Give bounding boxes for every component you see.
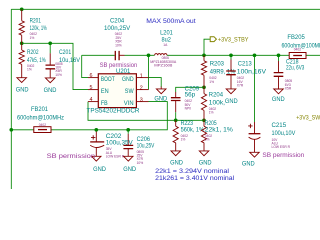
wire C206 drop xyxy=(127,130,129,134)
svg-text:10%: 10% xyxy=(55,73,62,77)
junction node C218 top xyxy=(277,53,281,57)
ground under C215 xyxy=(242,152,259,167)
svg-text:1: 1 xyxy=(140,74,143,80)
wire C209 lower to FB net xyxy=(175,101,177,113)
pin 5 EN xyxy=(88,85,109,95)
svg-text:21k261 = 3.401V nominal: 21k261 = 3.401V nominal xyxy=(155,175,234,182)
svg-text:1%: 1% xyxy=(30,36,35,40)
wire FB net xyxy=(88,102,204,121)
ground under C206 xyxy=(123,156,136,173)
junction node SW xyxy=(147,53,151,57)
wire top VIN rail xyxy=(11,8,320,10)
svg-text:+3V3_STBY: +3V3_STBY xyxy=(218,37,249,44)
ground under R223 xyxy=(170,151,183,166)
svg-text:100n,16V: 100n,16V xyxy=(237,69,267,76)
svg-text:U201: U201 xyxy=(116,68,131,75)
svg-text:LOW ESR R: LOW ESR R xyxy=(272,145,291,149)
svg-text:56p: 56p xyxy=(185,92,196,99)
resistor R205 xyxy=(201,120,233,151)
svg-text:C204: C204 xyxy=(110,18,124,25)
wire C209 branch xyxy=(176,87,204,92)
svg-text:MPZ1608: MPZ1608 xyxy=(154,63,172,67)
wire C213 drop xyxy=(230,55,232,59)
svg-text:10u,25V: 10u,25V xyxy=(137,143,155,150)
wire left vertical VIN feed xyxy=(10,9,12,189)
junction node top R201 xyxy=(20,7,24,11)
junction node FB R223 xyxy=(174,118,178,122)
svg-text:100u,10V: 100u,10V xyxy=(272,130,296,137)
svg-text:SW: SW xyxy=(125,88,134,95)
svg-text:GND: GND xyxy=(122,76,134,83)
svg-text:VIN: VIN xyxy=(124,100,134,107)
svg-text:1%: 1% xyxy=(27,68,32,72)
resistor R201 xyxy=(19,9,47,43)
svg-text:600ohm@100MHz: 600ohm@100MHz xyxy=(282,42,320,49)
svg-text:560k, 1%: 560k, 1% xyxy=(181,126,205,133)
svg-text:1%: 1% xyxy=(205,138,210,142)
svg-text:10%: 10% xyxy=(115,43,122,47)
resistor R202 xyxy=(19,43,46,77)
svg-text:FB201: FB201 xyxy=(31,106,48,113)
svg-text:GND: GND xyxy=(93,166,106,173)
svg-text:3: 3 xyxy=(140,97,143,103)
ground under R205 xyxy=(199,151,212,166)
wire output rail after L201 xyxy=(167,54,320,56)
wire C201 drop xyxy=(49,43,51,53)
ground at U201 pin1 xyxy=(154,87,167,103)
op-amp U201 regulator body xyxy=(87,62,140,115)
svg-text:GND: GND xyxy=(154,96,167,103)
svg-text:R203: R203 xyxy=(210,60,225,67)
svg-text:GND: GND xyxy=(44,87,57,94)
wire pin1 GND stub xyxy=(149,78,162,87)
svg-text:FB205: FB205 xyxy=(287,34,305,41)
svg-text:C213: C213 xyxy=(238,60,252,67)
ground under C201 xyxy=(44,78,57,94)
svg-text:R202: R202 xyxy=(27,49,39,56)
capacitor C206 xyxy=(123,136,154,165)
junction node C206 top xyxy=(126,128,130,132)
svg-text:SB permission: SB permission xyxy=(262,152,304,159)
svg-text:GND: GND xyxy=(16,86,29,93)
ground under C218 xyxy=(272,89,285,103)
resistor R204 xyxy=(201,87,225,120)
svg-text:R204: R204 xyxy=(209,91,223,98)
svg-text:GND: GND xyxy=(242,161,255,168)
svg-text:47k5, 1%: 47k5, 1% xyxy=(27,57,46,64)
svg-text:LOW ESR R: LOW ESR R xyxy=(106,154,125,158)
hierarchical label +3V3_STBY xyxy=(210,37,249,44)
svg-text:1%: 1% xyxy=(209,111,214,115)
hierarchical label +3V3_SW xyxy=(296,114,320,121)
wire input rail FB201 to VIN pin xyxy=(11,102,167,130)
svg-text:BOOT: BOOT xyxy=(101,76,115,83)
svg-text:EN: EN xyxy=(101,88,109,95)
svg-text:TPS54202HDDCR: TPS54202HDDCR xyxy=(87,107,140,114)
svg-text:22k1, 1%: 22k1, 1% xyxy=(205,126,233,133)
svg-text:0402: 0402 xyxy=(39,123,47,127)
svg-text:6: 6 xyxy=(90,73,93,79)
svg-text:10%: 10% xyxy=(137,161,144,165)
resistor R203 xyxy=(201,55,235,87)
svg-text:1%: 1% xyxy=(209,80,214,84)
junction node C213 top xyxy=(229,53,233,57)
junction node FB201 input xyxy=(9,128,13,132)
svg-text:C201: C201 xyxy=(59,49,71,56)
capacitor C204 (BOOT) xyxy=(104,18,131,61)
pin 4 FB xyxy=(88,97,108,107)
wire C218 drop xyxy=(278,55,280,61)
resistor R223 xyxy=(173,120,204,151)
ferrite bead FB201 xyxy=(17,106,64,133)
capacitor C213 xyxy=(226,60,266,89)
svg-text:4: 4 xyxy=(90,97,93,103)
svg-text:X5R: X5R xyxy=(285,86,292,90)
wire EN divider mid rail xyxy=(22,43,88,89)
svg-text:FB: FB xyxy=(101,100,108,107)
pin 2 SW xyxy=(125,85,149,95)
ground under C213 xyxy=(225,89,238,105)
svg-text:120k, 1%: 120k, 1% xyxy=(30,25,47,32)
svg-text:5: 5 xyxy=(90,85,93,91)
svg-text:L201: L201 xyxy=(160,29,173,36)
svg-text:GND: GND xyxy=(170,159,183,166)
svg-text:MAX 500mA out: MAX 500mA out xyxy=(146,18,196,25)
junction node EN divider xyxy=(20,41,24,45)
capacitor C218 xyxy=(274,59,305,91)
wire +3V3_STBY label stub xyxy=(204,39,210,55)
inductor L201 xyxy=(150,29,177,67)
junction node C215 top xyxy=(253,53,257,57)
junction node R203-R204 / C209 xyxy=(202,85,206,89)
svg-text:X7R: X7R xyxy=(237,83,244,87)
svg-text:SB permission: SB permission xyxy=(47,153,96,160)
svg-text:GND: GND xyxy=(199,159,212,166)
junction node R203 top xyxy=(202,53,206,57)
svg-text:+3V3_SW: +3V3_SW xyxy=(296,114,320,121)
ground under C202 xyxy=(92,156,107,173)
svg-text:1%: 1% xyxy=(181,138,186,142)
svg-text:C215: C215 xyxy=(272,122,287,129)
svg-text:600ohm@100MHz: 600ohm@100MHz xyxy=(17,115,64,122)
svg-text:R201: R201 xyxy=(30,18,41,25)
ground under R202 xyxy=(16,78,29,94)
wire SW net to C204 and L201 xyxy=(119,54,124,56)
wire C215 feed xyxy=(254,55,256,122)
svg-text:2: 2 xyxy=(140,85,143,91)
svg-text:100k,: 100k, xyxy=(209,100,225,107)
capacitor C202 polarized xyxy=(90,133,133,159)
capacitor C215 polarized xyxy=(248,122,296,152)
pin 3 VIN xyxy=(124,97,149,107)
capacitor C201 xyxy=(46,49,81,78)
svg-text:GND: GND xyxy=(225,98,238,105)
svg-text:22u, 6V3: 22u, 6V3 xyxy=(286,64,305,71)
pin 6 BOOT xyxy=(88,73,115,83)
svg-text:GND: GND xyxy=(123,166,136,173)
wire C202 drop xyxy=(95,129,97,132)
junction node FB R205 xyxy=(202,118,206,122)
wire BOOT net xyxy=(82,55,115,77)
junction node C201 top xyxy=(48,41,52,45)
ferrite bead FB205 xyxy=(282,34,320,59)
svg-text:NP0: NP0 xyxy=(185,106,192,110)
pin 1 GND xyxy=(122,74,149,84)
capacitor C209 xyxy=(171,86,200,111)
junction node C202 top xyxy=(94,128,98,132)
svg-text:GND: GND xyxy=(272,96,285,103)
